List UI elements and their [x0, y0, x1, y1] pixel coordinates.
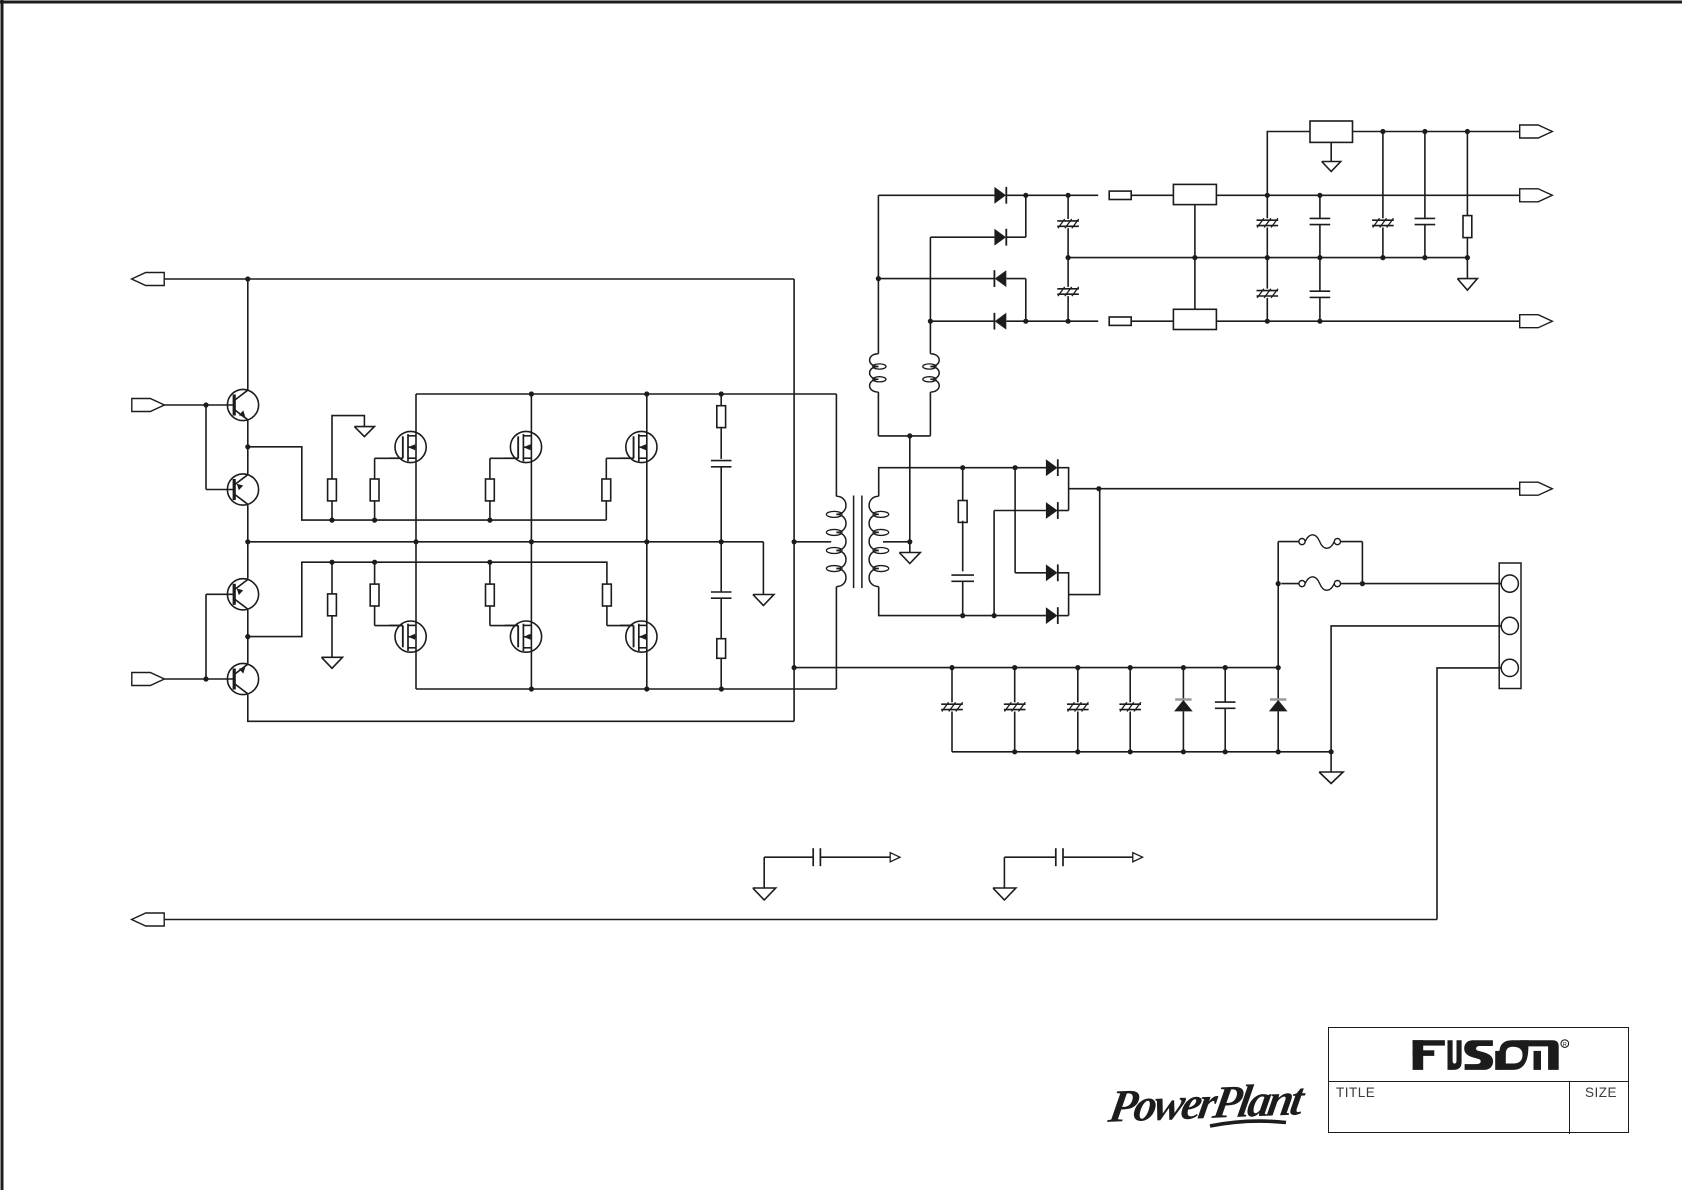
- wire fuse left column: [1277, 542, 1279, 668]
- logo letter O: [1499, 1040, 1528, 1070]
- node railB/1267: [1265, 193, 1270, 198]
- transistor Q4: [227, 663, 258, 694]
- wire node A to top gate rail: [248, 447, 607, 520]
- capacitor C15 column: [1129, 668, 1131, 752]
- wire C2-R10: [720, 598, 722, 639]
- connector J1 body: [1499, 563, 1521, 689]
- node top-rail/Q1 junction: [245, 276, 250, 281]
- capacitor C10 column: [1382, 132, 1384, 258]
- transformer T1 secondary lead bottom: [879, 587, 1046, 616]
- ground R5: [322, 657, 343, 668]
- wire D6 cathode: [1006, 236, 1025, 238]
- node M3/mid rail: [644, 539, 649, 544]
- capacitor C12 column: [951, 668, 953, 752]
- logo registered mark: [1561, 1040, 1569, 1048]
- node D5/D6 join: [1023, 193, 1028, 198]
- wire C3 bottom: [962, 581, 964, 615]
- wire base down to Q2: [206, 405, 234, 490]
- node rail/M5: [529, 686, 534, 691]
- wire D4 cathode: [1058, 615, 1069, 617]
- node U1/mid: [1192, 255, 1197, 260]
- wire cap-bank bottom rail: [952, 751, 1331, 753]
- capacitor C13: [1004, 702, 1026, 711]
- node fuse right join: [1360, 581, 1365, 586]
- diode D7: [994, 270, 1006, 287]
- node D8 anode/rail D: [1023, 319, 1028, 324]
- node C3/sec bottom: [960, 613, 965, 618]
- wire U3 gnd stub: [1330, 142, 1332, 161]
- sheet border frame left: [1, 0, 4, 1190]
- regulator U2: [1173, 309, 1216, 329]
- wire D5-D6 vertical: [1025, 195, 1027, 237]
- wire sense2 out: [1063, 856, 1133, 858]
- node railD/1267: [1265, 319, 1270, 324]
- wire U1 gnd stub: [1194, 205, 1196, 258]
- wire D3 cathode: [1058, 573, 1069, 616]
- node bank top x=1183.4: [1181, 665, 1186, 670]
- mosfet M1: [389, 431, 426, 462]
- capacitor C2: [711, 592, 732, 598]
- node D2/sec bottom: [992, 613, 997, 618]
- resistor R2: [370, 458, 379, 520]
- wire snubber top stub: [720, 394, 722, 406]
- logo letter F: [1413, 1040, 1424, 1070]
- wire D5 cathode: [1006, 194, 1025, 196]
- wire R13-U2: [1131, 320, 1173, 322]
- wire Q1 collector: [247, 279, 249, 390]
- wire M2 column: [530, 394, 532, 542]
- wire M3 gate: [606, 457, 633, 459]
- node bank bottom x=1183.4: [1181, 749, 1186, 754]
- wire sense2: [1004, 857, 1055, 888]
- wire M2 gate: [490, 457, 518, 459]
- node railA/1425: [1422, 129, 1427, 134]
- node mid-rail/BJT junction: [245, 539, 250, 544]
- capacitor sense1: [813, 848, 820, 866]
- wire R14 gnd stub: [1466, 258, 1468, 279]
- wire D6 anode: [930, 236, 994, 238]
- wire D2 anode drop: [993, 511, 995, 616]
- transistor Q1: [227, 389, 258, 420]
- node railA/1383: [1380, 129, 1385, 134]
- wire IN1 to bases: [164, 404, 234, 406]
- wire M5 column: [530, 542, 532, 689]
- wire M5 gate: [490, 625, 518, 627]
- diode D5: [994, 187, 1006, 204]
- node base junction 2: [203, 676, 208, 681]
- transformer T1 primary lead top: [835, 394, 837, 496]
- logo letter N: [1520, 1040, 1559, 1070]
- diode D1: [1046, 459, 1058, 476]
- node bank top x=1225.2: [1223, 665, 1228, 670]
- node railD/C column: [1066, 319, 1071, 324]
- wire R1 top to ground jog: [332, 416, 364, 479]
- resistor R7: [486, 562, 495, 625]
- ground cap bank: [1319, 772, 1343, 784]
- capacitor C5 column: [1067, 258, 1069, 322]
- node R6/rail: [372, 560, 377, 565]
- wire D1 cathode: [1058, 468, 1069, 511]
- wire M4 gate: [375, 625, 403, 627]
- wire primary center tap: [794, 541, 831, 543]
- sheet border frame top: [0, 1, 1682, 4]
- capacitor C5: [1057, 287, 1079, 296]
- wire fuse right column: [1361, 542, 1363, 584]
- connector J1 pin1: [1501, 575, 1518, 592]
- wire choke common: [878, 435, 930, 437]
- node M2/mid rail: [529, 539, 534, 544]
- wire D3 anode: [1015, 572, 1046, 574]
- mosfet M3: [620, 431, 657, 462]
- transformer T1 primary lead bottom: [835, 587, 837, 689]
- capacitor C7 column: [1266, 258, 1268, 322]
- wire M1 gate: [375, 457, 403, 459]
- mosfet M6: [620, 621, 657, 652]
- arrow sense1: [890, 853, 900, 862]
- wire base up to Q3: [206, 594, 234, 679]
- node snubber/mid rail: [719, 539, 724, 544]
- title block SIZE label: [1585, 1085, 1617, 1100]
- logo letter U: [1448, 1040, 1462, 1070]
- connector J1 pin2: [1501, 617, 1518, 634]
- diode D2: [1046, 502, 1058, 519]
- diode D3: [1046, 564, 1058, 581]
- wire M6 gate: [607, 625, 634, 627]
- fuse F1: [1278, 535, 1362, 549]
- ground secondary center tap: [899, 553, 920, 564]
- node L2/D8: [928, 319, 933, 324]
- node bank bottom x=1014.7: [1012, 749, 1017, 754]
- connector X1 output arrow left (top rail): [132, 273, 165, 286]
- diode D8: [994, 313, 1006, 330]
- regulator U1: [1173, 184, 1216, 204]
- node bank top x=1278.2: [1276, 665, 1281, 670]
- wire C1-midrail: [720, 467, 722, 542]
- node sec top/D3 feed: [1013, 465, 1018, 470]
- resistor R13: [1109, 317, 1131, 325]
- resistor R14: [1463, 216, 1472, 238]
- wire secondary center tap: [883, 541, 910, 543]
- mosfet M5: [505, 621, 542, 652]
- ground R14: [1457, 279, 1477, 291]
- node rail/M3: [644, 391, 649, 396]
- capacitor C4 column: [1067, 195, 1069, 257]
- node mid/1068: [1066, 255, 1071, 260]
- inductor L2 bottom lead: [929, 392, 931, 436]
- node fuse2 left: [1276, 581, 1281, 586]
- resistor R5 (R1 mirror): [328, 562, 337, 657]
- node bank top x=1077.8: [1075, 665, 1080, 670]
- wire upper drain rail: [416, 393, 836, 395]
- capacitor C15: [1119, 702, 1141, 711]
- wire Q4 collector to bottom return: [248, 695, 794, 722]
- wire M4 column: [415, 542, 417, 689]
- zener D10 column: [1277, 668, 1279, 752]
- node sec top/RC: [960, 465, 965, 470]
- connector output arrow D: [1520, 315, 1553, 328]
- resistor R11: [958, 468, 967, 523]
- connector main output arrow: [1520, 482, 1553, 495]
- wire D7 anode: [1006, 278, 1025, 280]
- regulator U3: [1310, 121, 1353, 142]
- transformer T1 core: [854, 496, 862, 589]
- svg-text:PowerPlant: PowerPlant: [1104, 1075, 1310, 1133]
- wire R12-U1: [1131, 194, 1173, 196]
- wire bank to connector mid: [1331, 626, 1501, 752]
- zener D10: [1269, 700, 1288, 712]
- transformer T1 secondary winding: [869, 496, 889, 586]
- node R1/rail: [329, 518, 334, 523]
- capacitor C6: [1257, 218, 1279, 227]
- node M1/mid rail: [413, 539, 418, 544]
- node base junction 1: [203, 402, 208, 407]
- capacitor C10: [1372, 218, 1394, 227]
- inductor L1 bottom lead: [877, 392, 879, 436]
- wire D8 cathode: [930, 320, 994, 322]
- capacitor C1: [711, 461, 732, 467]
- node railA/1467: [1465, 129, 1470, 134]
- capacitor C9: [1310, 291, 1331, 297]
- capacitor C16: [1215, 702, 1236, 708]
- node bank bottom x=1077.8: [1075, 749, 1080, 754]
- wire D2 anode: [994, 510, 1046, 512]
- wire mid rail: [248, 541, 764, 543]
- zener D9 column: [1182, 668, 1184, 752]
- wire to connector pin1: [1362, 583, 1501, 585]
- node feed/mid tap: [792, 539, 797, 544]
- capacitor C14 column: [1077, 668, 1079, 752]
- capacitor C13 column: [1014, 668, 1016, 752]
- node bank bottom x=1130.2: [1128, 749, 1133, 754]
- node rail/M6: [644, 686, 649, 691]
- node railB/C column: [1066, 193, 1071, 198]
- node output pair2 join: [1096, 486, 1101, 491]
- wire node B to bottom gate rail: [248, 562, 607, 636]
- capacitor C11: [1415, 218, 1436, 224]
- transformer T1 primary winding: [826, 496, 846, 586]
- node bank top x=1130.2: [1128, 665, 1133, 670]
- node bank bottom x=1331.1: [1329, 749, 1334, 754]
- ground sense1: [753, 888, 776, 900]
- title block horizontal divider: [1329, 1081, 1628, 1082]
- capacitor C9 column: [1319, 258, 1321, 322]
- connector output arrow A: [1520, 125, 1553, 138]
- connector input arrow IN1: [132, 399, 165, 412]
- mosfet M2: [505, 431, 542, 462]
- node mid/1467: [1465, 255, 1470, 260]
- connector input arrow IN2: [132, 673, 165, 686]
- node tap/secondary center: [907, 539, 912, 544]
- logo letter I: [1495, 1051, 1500, 1070]
- wire M1 column: [415, 394, 417, 542]
- node rail/M2: [529, 391, 534, 396]
- capacitor C7: [1257, 289, 1279, 298]
- node bank top x=1014.7: [1012, 665, 1017, 670]
- ground U3: [1322, 162, 1341, 172]
- node R7/rail: [487, 560, 492, 565]
- node bank top x=952.0: [949, 665, 954, 670]
- wire D5 anode feed: [878, 194, 994, 196]
- capacitor C8 column: [1319, 195, 1321, 257]
- wire main output rail: [1069, 488, 1520, 490]
- wire U3 input: [1267, 132, 1310, 196]
- wire sense1: [764, 857, 813, 888]
- wire top rail: [164, 278, 794, 280]
- title block vertical divider: [1569, 1081, 1570, 1135]
- resistor R10: [717, 639, 726, 659]
- connector J1 pin3: [1501, 659, 1518, 676]
- wire sense1 out: [820, 856, 890, 858]
- node bank bottom x=1278.2: [1276, 749, 1281, 754]
- wire rail D: [1006, 320, 1098, 322]
- node mid/1383: [1380, 255, 1385, 260]
- wire Q3-Q4 connection: [247, 610, 249, 664]
- wire cap-bank top rail: [794, 667, 1278, 669]
- node L1/D7: [876, 276, 881, 281]
- transistor Q2: [227, 474, 258, 505]
- transformer T1 secondary lead top: [879, 468, 1046, 497]
- wire IN2 to bases: [164, 678, 234, 680]
- wire lower source rail: [416, 688, 836, 690]
- wire U2 out: [1216, 320, 1519, 322]
- PowerPlant script logo: [1104, 1075, 1310, 1133]
- FUSION logo: [1413, 1040, 1569, 1070]
- wire rail B left: [1026, 194, 1098, 196]
- wire U1 out: [1216, 194, 1519, 196]
- node mid/1425: [1422, 255, 1427, 260]
- node mid/1267: [1265, 255, 1270, 260]
- wire mid-rail ground stub: [762, 542, 764, 595]
- diode D6: [994, 229, 1006, 246]
- wire right mid rail: [1068, 257, 1467, 259]
- diode D4: [1046, 607, 1058, 624]
- node rail/RC column bottom: [719, 686, 724, 691]
- title block TITLE label: [1336, 1085, 1375, 1100]
- wire Q2 collector to mid junction: [247, 505, 249, 579]
- wire D3 feed: [1014, 468, 1016, 573]
- node R2/rail: [372, 518, 377, 523]
- wire main feed vertical: [793, 279, 795, 721]
- node R5/rail: [329, 560, 334, 565]
- wire D2 cathode: [1058, 510, 1069, 512]
- wire R9-C1: [720, 427, 722, 459]
- resistor R3: [486, 458, 495, 520]
- capacitor C12: [941, 702, 963, 711]
- wire U3 out rail A: [1353, 131, 1520, 133]
- wire R11-C3: [962, 521, 964, 572]
- resistor R1: [328, 479, 337, 520]
- connector bottom-left arrow: [132, 913, 165, 926]
- mosfet M4: [389, 621, 426, 652]
- wire midrail-C2: [720, 542, 722, 592]
- inductor L2: [923, 354, 939, 392]
- node A (Q1/Q2 emitters): [245, 444, 250, 449]
- resistor R14 column: [1466, 132, 1468, 258]
- capacitor C8: [1310, 218, 1331, 224]
- resistor R6: [370, 562, 379, 625]
- inductor L1 lead: [877, 195, 879, 353]
- title block frame: [1328, 1027, 1629, 1133]
- wire choke tap down: [909, 436, 911, 553]
- connector output arrow B: [1520, 189, 1553, 202]
- wire D7 cathode: [878, 278, 994, 280]
- wire M6 column: [646, 542, 648, 689]
- wire Q1 emitter to node A: [247, 420, 249, 474]
- capacitor C11 column: [1424, 132, 1426, 258]
- resistor R8: [603, 584, 612, 626]
- arrow sense2: [1133, 853, 1143, 862]
- capacitor C3: [951, 575, 974, 581]
- wire bank gnd stub: [1330, 752, 1332, 772]
- node railD/1320: [1317, 319, 1322, 324]
- node mid/1320: [1317, 255, 1322, 260]
- node feed/cap-bank rail: [792, 665, 797, 670]
- fuse F2: [1281, 577, 1362, 591]
- wire R10 bottom: [720, 658, 722, 689]
- node railB/1320: [1317, 193, 1322, 198]
- resistor R9: [717, 406, 726, 428]
- capacitor C16 column: [1224, 668, 1226, 752]
- node B (Q3/Q4 emitters): [245, 634, 250, 639]
- capacitor C6 column: [1266, 195, 1268, 257]
- capacitor C4: [1057, 219, 1079, 228]
- wire bottom return: [164, 919, 1437, 921]
- zener D9: [1174, 700, 1193, 712]
- ground R1: [354, 427, 374, 437]
- wire D7-D8 vertical: [1025, 279, 1027, 322]
- node choke tap: [907, 433, 912, 438]
- inductor L2 lead: [929, 237, 931, 354]
- node rail/RC column: [719, 391, 724, 396]
- inductor L1: [870, 354, 886, 392]
- ground mid-rail: [753, 595, 774, 606]
- capacitor sense2: [1056, 848, 1063, 866]
- node bank bottom x=1225.2: [1223, 749, 1228, 754]
- capacitor C14: [1067, 702, 1089, 711]
- resistor R12: [1109, 191, 1131, 199]
- transistor Q3: [227, 579, 258, 610]
- node R3/rail: [487, 518, 492, 523]
- logo letter S: [1464, 1040, 1493, 1070]
- wire pair2 output up: [1069, 489, 1100, 595]
- ground sense2: [993, 888, 1016, 900]
- resistor R4: [602, 458, 611, 520]
- wire U2 top stub: [1194, 258, 1196, 310]
- wire M3 column: [646, 394, 648, 542]
- wire connector pin3 line: [1437, 668, 1502, 920]
